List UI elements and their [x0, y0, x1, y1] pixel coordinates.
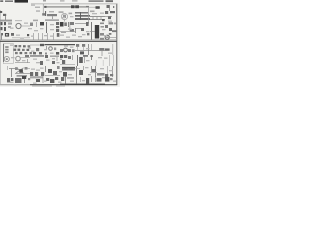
label text 58 [33, 83, 37, 84]
wire bus2 [45, 44, 76, 46]
resistor R39b [25, 52, 28, 54]
label text 47 [104, 58, 108, 59]
resistor R18 [68, 49, 71, 52]
label text 32 [44, 49, 47, 50]
label text 8 [10, 28, 14, 29]
label q3 [54, 48, 56, 51]
wire faint v1 [95, 60, 97, 66]
triode V2 blob a [60, 22, 64, 27]
wire pot wiper [20, 57, 30, 59]
wire v right [88, 44, 90, 55]
resistor R25 [55, 77, 58, 80]
capacitor C11 [81, 28, 84, 31]
capacitor C16 [56, 52, 59, 55]
capacitor C10 pair [86, 22, 89, 26]
transistor Q7 [25, 67, 28, 70]
wire B+ rail [44, 6, 88, 8]
electrolytic C25 can [62, 67, 75, 70]
label text 4 [70, 16, 74, 17]
border bottom dark segment [60, 83, 105, 85]
capacitor C13 [109, 28, 112, 31]
label text 64 [113, 81, 116, 82]
electrolytic C19 [80, 51, 84, 54]
label text 50 [40, 68, 44, 69]
label text 40 [33, 59, 37, 60]
label tube pins [83, 55, 88, 57]
wire heater bus lower [0, 40, 117, 42]
rectifier D1 [96, 6, 100, 9]
label text 33 [50, 53, 54, 54]
wire long h [75, 50, 105, 52]
label text 13 [50, 24, 54, 25]
node J1 [0, 11, 2, 13]
wire v line r [112, 44, 114, 55]
wire v [36, 22, 38, 27]
label text 51 [59, 71, 62, 72]
resistor row Rnet1 [75, 12, 88, 14]
label s2 [28, 78, 30, 80]
wire faint v2 [102, 60, 104, 66]
thermistor RT1 [61, 77, 64, 81]
wire v tube [77, 55, 79, 66]
wire h pwr [75, 68, 80, 70]
label text 38 [11, 57, 15, 58]
wire drop d [47, 33, 49, 40]
wire drop [75, 28, 77, 33]
resistor R10 [70, 29, 74, 32]
label lamp [109, 33, 112, 35]
label cathode val [61, 32, 66, 33]
switch S1 [25, 55, 29, 57]
wire v faint [7, 66, 9, 70]
wire v plug2 [112, 66, 114, 77]
resistor R24 [57, 66, 60, 69]
line cord squiggle [86, 78, 89, 84]
note above border [43, 0, 46, 1]
label text 53 [85, 67, 89, 68]
speaker SP1 coil turn 3 [5, 51, 8, 53]
label fuse [97, 78, 102, 82]
wire v c23 [72, 55, 74, 60]
terminal strip [11, 33, 14, 36]
wire vq [77, 47, 79, 50]
pilot lamp filament [106, 37, 108, 38]
label row R5 value [45, 19, 59, 21]
jack J2 b [4, 22, 6, 25]
capacitor C22 [40, 61, 43, 65]
wire v spk2 [11, 69, 13, 78]
wire v pl [76, 77, 78, 84]
capacitor C18 [82, 44, 85, 47]
can hatch b [70, 68, 74, 70]
label q row [17, 75, 28, 77]
resistor R12 [110, 11, 115, 13]
wire OT primary [91, 22, 93, 40]
transistor Q5 [15, 67, 18, 70]
label text 41 [36, 62, 40, 63]
capacitor C14 [87, 33, 89, 35]
label text 10 [28, 28, 32, 29]
resistor R3 [8, 26, 11, 28]
wire h2 [75, 28, 84, 30]
speaker terminal a [1, 33, 3, 35]
wire v f2 [95, 76, 97, 82]
resistor R5 zigzag [47, 14, 57, 16]
wire plate riser [88, 7, 90, 24]
label faint mid [36, 10, 40, 12]
label T1 pins [100, 23, 104, 25]
label text 35 [70, 47, 74, 48]
wire arrow v [91, 55, 93, 60]
label text 3 [61, 17, 65, 18]
label text 1 [31, 5, 35, 6]
label W faint [35, 7, 40, 9]
wire faint v3 [109, 55, 111, 66]
jack J2 a [1, 22, 3, 25]
switch S2 cluster [15, 78, 22, 83]
pot VR7 body [16, 56, 21, 61]
wire v pt [91, 44, 93, 50]
label text 54 [88, 74, 91, 75]
capacitor C8 [102, 19, 105, 21]
wire grid V1 [45, 11, 47, 16]
transformer T1 core [95, 25, 99, 39]
label pin [100, 33, 104, 36]
resistor R30 [15, 45, 18, 47]
wire h mid [30, 44, 45, 46]
label text 60 [58, 82, 62, 83]
label OUTPUT [5, 33, 9, 37]
border top [31, 3, 117, 5]
label text 16 [86, 31, 90, 32]
wire T1 lead [90, 31, 95, 33]
wire h out [12, 37, 30, 39]
wire v sw [27, 59, 29, 63]
ground sym [90, 55, 93, 57]
resistor R39a [20, 52, 23, 54]
wire v b2 [42, 76, 44, 83]
label text 20 [31, 36, 34, 37]
label text 44 [57, 62, 60, 63]
label text 23 [60, 35, 64, 36]
capacitor C21 [75, 5, 79, 8]
label text 42 [46, 60, 50, 61]
label text 29 [10, 45, 14, 46]
capacitor C4 [42, 13, 45, 15]
polarized cap C27 [36, 79, 40, 82]
wire vq2 [83, 47, 85, 50]
label text 21 [44, 35, 47, 36]
resistor R1 [30, 23, 33, 27]
resistor R38 [15, 52, 18, 54]
wire spk v [3, 44, 5, 62]
label text 25 [72, 35, 76, 36]
transistor Q2 [36, 48, 39, 51]
diode D6 [46, 78, 49, 81]
speaker SP1 coil turn 2 [5, 49, 8, 51]
wire faint v4 [113, 55, 115, 66]
resistor R9 [70, 22, 74, 25]
label text 30 [28, 48, 31, 49]
terminal TB1 a [7, 78, 10, 82]
jack J3 a [1, 27, 3, 30]
wire rail right [88, 6, 100, 8]
caption below border b [56, 86, 65, 87]
resistor row Rnet2 [75, 15, 90, 17]
label tiny b [72, 0, 78, 1]
resistor R32 [23, 45, 26, 47]
resistor R6 [56, 22, 59, 25]
tube socket XV3 [41, 72, 44, 76]
resistor R23 [64, 55, 67, 58]
terminal on rail [44, 6, 46, 8]
label text 36 [86, 48, 90, 49]
fuse F1 symbol [105, 48, 110, 50]
label text 45 [86, 60, 90, 61]
tube socket XV1 [30, 72, 33, 76]
transformer T2 winding [92, 69, 96, 72]
label rt row [67, 77, 74, 79]
label ac row [97, 73, 105, 76]
wire v t2b [95, 66, 97, 77]
wire v rt [65, 76, 67, 84]
resistor R2 [8, 23, 12, 25]
transistor Q6 [19, 69, 23, 73]
capacitor C9 [108, 16, 111, 19]
header note right [89, 0, 104, 2]
wire v s2 [24, 79, 26, 83]
resistor R37 [27, 49, 30, 51]
capacitor C2 body [40, 22, 44, 26]
resistor R40 [86, 6, 89, 8]
label text 17 [102, 29, 106, 30]
label text 37 [108, 53, 112, 54]
label text 39 [22, 60, 26, 61]
speaker enclosure outline [3, 44, 13, 64]
capacitor C23 [68, 56, 71, 59]
wire bus h1 [90, 16, 105, 18]
diode D4 [53, 71, 57, 75]
can top edge [62, 66, 75, 68]
label small [59, 11, 64, 13]
wire lamp [105, 37, 116, 39]
border right [116, 4, 118, 86]
label text 5 [92, 13, 97, 14]
capacitor C17 [76, 44, 79, 47]
transistor Q1 [16, 23, 21, 28]
border bottom [30, 84, 117, 86]
wire h b [45, 75, 60, 77]
screw terminal [112, 30, 117, 32]
border bottom left [0, 84, 30, 86]
electrolytic C24 [62, 60, 65, 64]
label text 24 [66, 37, 70, 38]
wire drop a [33, 33, 35, 40]
label plug [110, 78, 113, 80]
wire h cathode [60, 31, 75, 33]
wire diag a [16, 68, 24, 73]
wire h t2 [90, 72, 97, 74]
wire h gnd [15, 62, 30, 64]
label text 7 [8, 24, 12, 25]
wire heater bus upper [0, 39, 117, 41]
tube V3 body [79, 57, 83, 63]
pilot lamp DS1 [105, 35, 109, 39]
label text 34 [64, 46, 68, 47]
wire plate [52, 16, 54, 19]
label text 48 [31, 69, 35, 70]
label 50C5 [99, 48, 104, 50]
wire v b1 [45, 66, 47, 72]
pin mark [113, 6, 114, 8]
resistor R33 [28, 45, 31, 47]
wire v plug [107, 66, 109, 74]
wire q6 out [26, 68, 30, 70]
capacitor C20 [71, 5, 75, 8]
resistor R13 [109, 22, 114, 24]
label text 62 [82, 80, 85, 81]
resistor R15 [33, 52, 36, 54]
output core [6, 34, 8, 35]
wire h under can [62, 70, 75, 72]
label tiny a [60, 0, 65, 1]
triode V1 plate [63, 15, 66, 18]
can hatch [64, 68, 68, 70]
capacitor C1 [3, 14, 6, 16]
wire input drop [5, 16, 7, 21]
wire v out [1, 33, 3, 40]
terminal TB1 b [11, 78, 13, 81]
resistor R19 [72, 49, 75, 52]
label text 49 [36, 70, 40, 71]
title text [5, 0, 13, 2]
wire v q3 [46, 46, 48, 50]
wire tick t1 [92, 17, 94, 21]
speaker SP1 magnet [6, 58, 8, 60]
resistor R21 [52, 61, 55, 64]
label mark [60, 59, 62, 61]
capacitor C12 [105, 25, 108, 28]
ac plug symbol [105, 77, 109, 82]
transistor Q4 [64, 48, 68, 52]
wire drop c [42, 33, 44, 40]
wire tick t2 [96, 17, 98, 21]
title solid bar [15, 0, 29, 3]
label text 2 [100, 13, 104, 14]
wire v pwr [76, 66, 78, 77]
wire v f1 [91, 76, 93, 82]
wire v2 pins [68, 22, 70, 27]
wire V1 cathode [64, 20, 66, 22]
label text 6 [108, 21, 112, 22]
label text 15 [68, 29, 72, 30]
wire plate h [75, 23, 86, 25]
wire h tb [7, 81, 14, 83]
wire v pl2 [80, 77, 82, 82]
pin mark b [27, 34, 29, 36]
resistor R7 [56, 26, 59, 28]
wire drop b [38, 33, 40, 40]
resistor R8 [56, 29, 59, 32]
label text 46 [98, 57, 102, 58]
label text 43 [52, 58, 55, 59]
label grid [49, 11, 54, 12]
solder lug [45, 53, 47, 55]
sheet label [106, 0, 114, 2]
resistor R34 [14, 49, 17, 51]
wire h q [15, 73, 30, 75]
resistor R20 [45, 55, 48, 58]
capacitor C15 [40, 44, 44, 46]
wire v drop50 [101, 51, 103, 56]
wire v r21 [56, 57, 58, 61]
resistor R36 [22, 49, 25, 51]
label row VOLUME [0, 20, 12, 22]
label text 18 [16, 35, 20, 36]
label r13 val [114, 23, 116, 25]
border left [0, 10, 1, 85]
label text 22 [50, 36, 53, 37]
wire top feed [42, 4, 44, 14]
label text 27 [82, 34, 86, 35]
wire drop e [53, 33, 55, 40]
label text 19 [20, 38, 24, 39]
label bottom text [30, 76, 43, 78]
resistor R16 [39, 52, 42, 54]
label text 63 [102, 77, 105, 78]
transistor Q3 [49, 47, 53, 51]
capacitor C5 plates [69, 22, 71, 31]
resistor R14 [57, 33, 60, 37]
label text 14 [50, 29, 54, 30]
caption below border [32, 86, 52, 87]
wire q1 out [21, 25, 30, 27]
switch S2 bat [22, 76, 26, 79]
label pin2 [100, 38, 104, 40]
label text 52 [68, 74, 72, 75]
label text 11 [34, 30, 38, 31]
resistor R31 [19, 45, 22, 47]
resistor row Rnet3 [75, 18, 90, 20]
plug P1 [105, 74, 108, 77]
label faint [15, 20, 22, 21]
wire h 64 [60, 64, 75, 66]
wire bus h2 [90, 19, 105, 21]
wire +B drop [109, 5, 111, 11]
label text 56 [109, 70, 113, 71]
resistor R39c [30, 52, 32, 54]
label text 12 [40, 28, 44, 29]
jack J3 b [4, 27, 6, 31]
wire v t2a [91, 66, 93, 72]
resistor R4 [69, 13, 73, 15]
resistor R17 [60, 49, 63, 52]
label text 55 [100, 68, 104, 69]
wire V2 grid [46, 22, 48, 33]
wire v tube2 [84, 55, 86, 63]
label near D1 [90, 11, 95, 13]
label text 57 [14, 84, 17, 85]
label text 28 [104, 35, 107, 36]
tube socket XV2 [35, 72, 38, 76]
resistor R35 [18, 49, 21, 51]
electrolytic C26 [63, 72, 67, 77]
label text 9 [24, 23, 28, 24]
wire h spk2 [9, 68, 15, 70]
label small2 [50, 55, 59, 57]
wire h right [105, 16, 112, 18]
title text block left [0, 0, 3, 2]
